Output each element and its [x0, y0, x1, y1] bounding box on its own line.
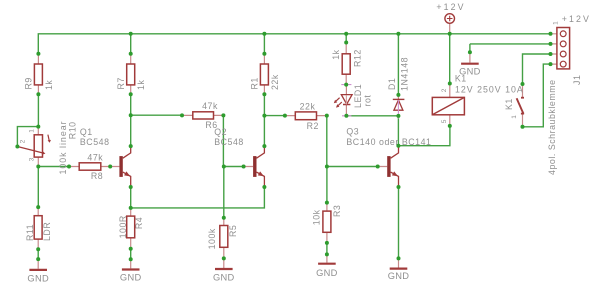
svg-text:3: 3 [29, 157, 36, 161]
svg-text:R10: R10 [68, 121, 78, 139]
svg-text:GND: GND [27, 273, 49, 283]
svg-text:1N4148: 1N4148 [400, 57, 410, 91]
svg-text:GND: GND [316, 268, 338, 278]
svg-text:R3: R3 [332, 205, 342, 217]
svg-text:R4: R4 [134, 217, 144, 229]
svg-text:Q3: Q3 [346, 127, 359, 137]
svg-text:4pol. Schraubklemme: 4pol. Schraubklemme [547, 79, 557, 175]
svg-text:1: 1 [29, 129, 36, 133]
svg-text:R2: R2 [307, 121, 319, 131]
svg-text:rot: rot [363, 95, 373, 107]
svg-text:1k: 1k [331, 49, 341, 59]
svg-text:GND: GND [120, 273, 142, 283]
svg-text:R1: R1 [249, 77, 259, 89]
svg-text:Q1: Q1 [80, 127, 93, 137]
svg-text:R7: R7 [116, 77, 126, 89]
svg-text:R5: R5 [228, 225, 238, 237]
svg-text:47k: 47k [202, 101, 218, 111]
svg-text:BC548: BC548 [214, 137, 244, 147]
svg-text:100k linear: 100k linear [58, 120, 68, 174]
svg-text:100R: 100R [118, 215, 128, 238]
svg-text:1k: 1k [136, 80, 146, 90]
svg-text:10k: 10k [312, 209, 322, 225]
svg-text:GND: GND [459, 66, 481, 76]
svg-text:R11: R11 [25, 224, 35, 241]
svg-text:1: 1 [553, 21, 560, 25]
svg-text:1: 1 [511, 115, 518, 119]
svg-text:5: 5 [441, 119, 448, 123]
svg-text:47k: 47k [87, 152, 103, 162]
svg-text:BC548: BC548 [80, 137, 110, 147]
svg-text:J1: J1 [572, 75, 582, 85]
svg-text:R6: R6 [205, 120, 217, 130]
svg-text:+12V: +12V [562, 14, 590, 24]
svg-text:+12V: +12V [436, 2, 465, 12]
svg-text:R12: R12 [352, 49, 362, 67]
svg-text:R8: R8 [91, 171, 103, 181]
svg-text:D1: D1 [387, 78, 397, 90]
svg-text:GND: GND [388, 271, 410, 281]
svg-text:K1: K1 [504, 98, 514, 110]
svg-text:LDR: LDR [42, 222, 52, 241]
svg-text:2: 2 [441, 88, 448, 92]
svg-text:GND: GND [213, 272, 235, 282]
svg-text:2: 2 [20, 139, 27, 143]
svg-text:LED1: LED1 [353, 84, 363, 108]
svg-text:100k: 100k [207, 228, 217, 249]
svg-text:1k: 1k [44, 80, 54, 90]
svg-text:22k: 22k [270, 74, 280, 90]
svg-text:R9: R9 [23, 77, 33, 89]
svg-text:22k: 22k [300, 101, 316, 111]
svg-text:BC140 oder BC141: BC140 oder BC141 [346, 137, 431, 147]
svg-text:12V 250V 10A: 12V 250V 10A [455, 85, 524, 95]
